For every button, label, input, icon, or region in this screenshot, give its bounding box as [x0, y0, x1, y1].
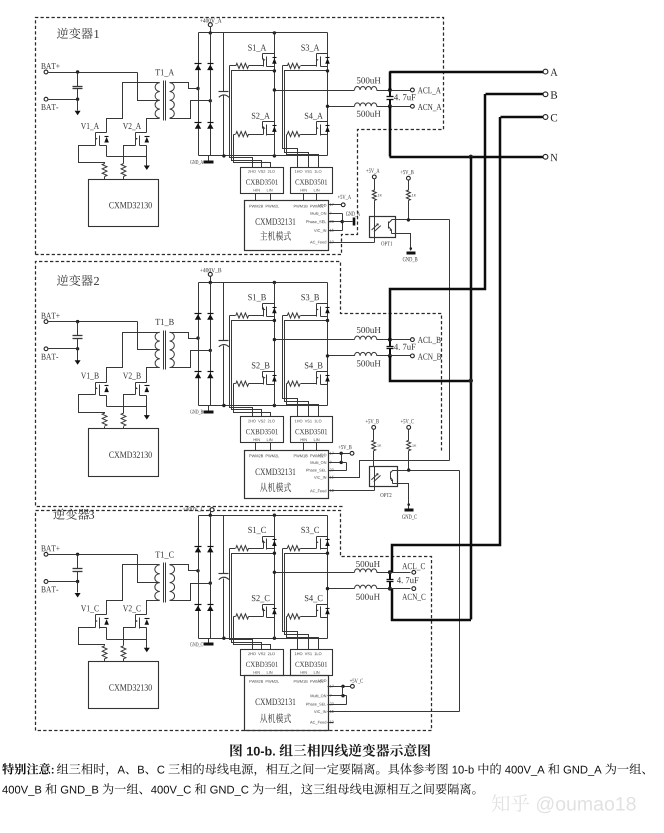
junction +400V rail / S1S2 rail	[273, 31, 276, 34]
MOSFET S1_A	[248, 45, 276, 67]
resistor S2 gate	[234, 381, 264, 386]
IC CXBD3501 driver S3/S4 (C)	[291, 650, 333, 676]
IC CXBD3501 driver S1/S2 (B)	[241, 417, 284, 443]
wire driver HIN/LIN stubs to controller	[256, 675, 317, 677]
resistor V1 gate (B)	[102, 413, 107, 428]
wire +400V stub	[210, 27, 212, 33]
wire bridge output to inductor (N side, A)	[328, 106, 355, 108]
wire secondary bottom to rectifier	[170, 101, 211, 119]
label 500uH upper (C)	[356, 561, 380, 567]
resistor 1K OPT1 pull-up	[406, 190, 416, 220]
net +5V_B pull-up for OPT1 output	[401, 170, 414, 191]
label inverter 3	[53, 508, 94, 519]
wire V1 gate to gate resistor	[79, 395, 105, 414]
transformer T1_C	[155, 552, 175, 603]
label 500uH upper (B)	[357, 327, 381, 333]
wire Multi_ON tie to VDD (inverter 2)	[329, 454, 347, 465]
wire BAT+ rail to transformer center tap	[138, 322, 160, 350]
MOSFET S2_C	[252, 595, 277, 617]
wire V1 gate to gate resistor	[79, 628, 105, 646]
junction bridge S1S2 output	[273, 338, 276, 341]
wire primary top to V1 drain	[107, 565, 160, 615]
resistor V1 gate (A)	[102, 164, 107, 180]
resistor S1 gate	[230, 546, 264, 551]
MOSFET V2_C	[123, 605, 150, 628]
wire GND bus rail (C)	[199, 638, 328, 640]
wire OPT2 collector to slave sync (inverter 3)	[398, 471, 460, 712]
junction S3 source / rail	[326, 319, 329, 322]
inductor 500uH lower (C)	[355, 585, 390, 588]
wire OPT1 collector to slave sync	[396, 220, 450, 461]
junction S1 source / rail	[273, 69, 276, 72]
diode rectifier lower-right (A)	[207, 123, 213, 129]
note paragraph line 2 text	[2, 783, 475, 796]
wire secondary bottom to rectifier	[170, 351, 211, 368]
wire BAT- to cap	[49, 581, 78, 583]
junction OPT2 collector pull-up	[407, 468, 410, 471]
net +5V_B pull-up for OPT2 LED	[366, 419, 379, 440]
diode rectifier upper-right (A)	[207, 64, 213, 71]
capacitor battery input (A)	[73, 73, 83, 100]
wire V1/V2 common source	[107, 146, 147, 167]
wire S1 source sense VS2	[232, 321, 275, 417]
wire V1 gate to gate resistor	[79, 146, 105, 164]
wire primary bottom to V2 drain	[147, 119, 160, 133]
junction S1 source / rail	[273, 319, 276, 322]
IC CXMD32130 (A) push-pull controller	[89, 180, 159, 227]
junction secondary top / left leg	[196, 336, 199, 339]
MOSFET S2_B	[252, 362, 277, 384]
IC CXMD32130 (B) push-pull controller	[89, 429, 159, 477]
net +400V_B	[200, 268, 221, 276]
wire rectifier right leg	[210, 283, 212, 406]
wire S1 driver loop 2HO	[230, 316, 253, 417]
MOSFET S1_C	[248, 527, 276, 550]
net +5V_C pull-up for OPT2 output	[401, 419, 414, 440]
diode rectifier lower-right (C)	[207, 605, 213, 612]
MOSFET V1_A	[81, 123, 109, 146]
ground arrow common source (B)	[144, 415, 150, 420]
transformer T1_B	[155, 319, 174, 370]
capacitor DC bus filter (B)	[219, 283, 230, 406]
junction ACN output node	[388, 354, 392, 358]
IC CXBD3501 driver S3/S4 (A)	[291, 168, 333, 194]
wire S2 driver loop 2LO	[234, 384, 271, 417]
pin numbers CXMD32131 (B)	[330, 452, 334, 492]
terminal ACN_C	[390, 587, 426, 601]
junction secondary bottom / right leg	[209, 349, 212, 352]
terminal A	[543, 69, 558, 76]
wire rectifier left leg	[198, 33, 200, 156]
MOSFET S4_B	[305, 362, 330, 384]
ground arrow battery minus (C)	[75, 582, 81, 598]
IC CXMD32131 (B) slave	[245, 451, 329, 499]
transformer T1_A	[155, 69, 174, 120]
resistor S1 gate	[230, 313, 264, 318]
terminal BAT+ (A)	[41, 63, 59, 74]
junction BAT+ / input cap	[76, 70, 79, 73]
junction GND rail / cap	[222, 404, 225, 407]
resistor S3 gate	[283, 313, 317, 318]
wire +400V top rail	[199, 32, 328, 34]
wire BAT+ rail to transformer center tap	[138, 555, 160, 583]
wire phase C row to terminal	[501, 116, 544, 119]
junction S1 source / rail	[273, 552, 276, 555]
junction S3 source / rail	[326, 552, 329, 555]
wire V1/V2 common source	[107, 628, 147, 650]
MOSFET S4_A	[305, 113, 330, 136]
note paragraph line 1 (bold lead-in)	[2, 763, 53, 775]
wire S4 driver loop 1LO	[287, 617, 319, 650]
wire Multi_ON/Phase_SEL/VIC_IN tie to ground (master)	[329, 214, 343, 231]
wire secondary bottom to rectifier	[170, 584, 211, 601]
note paragraph line 1 text	[57, 763, 645, 776]
wire AC_Feed to OPT2 LED cathode	[329, 487, 375, 491]
label 500uH lower (B)	[357, 360, 381, 366]
terminal BAT- (B)	[41, 347, 58, 360]
junction bridge S3S4 output	[326, 587, 329, 590]
wire BAT- to cap	[49, 99, 78, 101]
wire ACN_B to N trunk	[390, 356, 471, 381]
junction bridge S3S4 output	[326, 105, 329, 108]
MOSFET S2_A	[252, 113, 277, 136]
resistor S3 gate	[283, 63, 317, 68]
terminal N	[543, 154, 557, 161]
junction OPT1 collector pull-up	[407, 218, 410, 221]
pin labels CXMD32131 right side (B)	[306, 461, 326, 493]
wire primary top to V1 drain	[107, 333, 160, 383]
IC CXMD32131 (C) slave	[245, 676, 329, 731]
junction N row / N trunk	[469, 155, 473, 159]
resistor 1K OPT2 LED	[372, 440, 382, 466]
wire primary bottom to V2 drain	[147, 601, 160, 615]
junction secondary bottom / right leg	[209, 99, 212, 102]
junction bridge S3S4 output	[326, 354, 329, 357]
resistor S1 gate	[230, 63, 264, 68]
IC CXBD3501 driver S1/S2 (A)	[241, 168, 284, 194]
junction ACN output node	[388, 104, 392, 108]
capacitor DC bus filter (C)	[219, 516, 230, 639]
inductor 500uH upper (C)	[355, 569, 390, 573]
diode rectifier lower-left (A)	[195, 123, 202, 129]
net +5V_B at VDD pin (inverter 2)	[329, 445, 354, 455]
wire sync from OPT1 into VIC_IN (inverter 2)	[329, 461, 450, 478]
wire S3 driver loop 1HO	[283, 549, 298, 650]
MOSFET S3_A	[301, 45, 329, 67]
IC CXBD3501 driver S3/S4 (B)	[291, 417, 333, 443]
wire bridge rail S1/S2	[274, 33, 276, 156]
resistor V2 gate (A)	[121, 164, 126, 180]
junction GND rail / S1S2 rail	[273, 404, 276, 407]
inductor 500uH lower (A)	[355, 103, 390, 107]
wire phase A bus to terminal	[390, 72, 544, 91]
label 500uH lower (A)	[357, 111, 381, 117]
ground arrow common source (C)	[144, 648, 150, 653]
junction +400V rail / right leg	[209, 281, 212, 284]
capacitor 4.7uF output filter (B)	[387, 340, 394, 356]
terminal ACN_B	[390, 354, 442, 361]
wire GND bus rail (A)	[199, 155, 328, 157]
inductor 500uH upper (B)	[355, 336, 390, 339]
MOSFET S1_B	[248, 294, 276, 316]
IC CXMD32131 (A) master	[245, 201, 329, 251]
diode rectifier upper-left (C)	[195, 547, 202, 553]
wire AC_Feed to OPT1 LED cathode	[329, 238, 375, 243]
diode rectifier upper-left (A)	[195, 64, 202, 71]
wire BAT+ rail	[49, 72, 138, 74]
diode rectifier lower-right (B)	[207, 372, 213, 379]
IC CXMD32130 (C) push-pull controller	[89, 662, 159, 709]
MOSFET S4_C	[305, 595, 330, 617]
wire OPT1 emitter to GND_B	[396, 234, 413, 251]
wire +400V top rail	[199, 282, 328, 284]
resistor S2 gate	[234, 614, 264, 619]
junction ACL output node	[388, 338, 392, 342]
label 4.7uF	[397, 577, 419, 583]
wire V2 gate to gate resistor	[124, 395, 136, 414]
resistor S3 gate	[283, 546, 317, 551]
wire phase B row to terminal	[486, 93, 544, 96]
label 4.7uF	[394, 344, 416, 350]
junction BAT- / cap	[76, 580, 79, 583]
terminal B	[543, 91, 557, 98]
inductor 500uH lower (B)	[355, 352, 390, 355]
wire bridge rail S3/S4	[327, 516, 329, 639]
terminal ACN_A	[390, 104, 442, 111]
resistor V2 gate (B)	[121, 413, 126, 428]
junction ACN_B / N trunk	[469, 379, 473, 383]
wire rectifier right leg	[210, 516, 212, 639]
ground GND_C symbol	[402, 510, 417, 520]
junction +400V rail / right leg	[209, 31, 212, 34]
wire bridge rail S1/S2	[274, 283, 276, 406]
junction +400V rail / S1S2 rail	[273, 514, 276, 517]
net +5V_A pull-up for OPT1 LED	[366, 169, 379, 191]
wire rectifier right leg	[210, 33, 212, 156]
wire +400V stub	[210, 510, 212, 516]
junction GND rail / cap	[222, 637, 225, 640]
net +400V_A	[200, 18, 222, 26]
wire phase B bus riser	[390, 94, 485, 340]
wire phase C bus riser	[392, 117, 500, 572]
optocoupler OPT1	[370, 217, 396, 246]
junction GND rail / S1S2 rail	[273, 637, 276, 640]
wire BAT+ rail to transformer center tap	[138, 73, 160, 101]
wire V1/V2 common source	[107, 396, 147, 417]
ground GND_A symbol	[190, 156, 213, 165]
wire Phase_SEL tie (inverter 2)	[329, 463, 347, 471]
net +400V_C	[183, 507, 214, 512]
capacitor 4.7uF output filter (A)	[387, 91, 394, 107]
wire secondary top to rectifier	[170, 565, 199, 571]
wire BAT- to cap	[49, 348, 78, 350]
wire S3 driver loop 1HO	[283, 316, 298, 417]
wire S3 driver loop 1HO	[283, 66, 298, 168]
MOSFET V1_B	[81, 373, 109, 396]
wire primary top to V1 drain	[107, 83, 160, 133]
terminal BAT- (A)	[41, 97, 58, 110]
capacitor 4.7uF output filter (C)	[387, 573, 394, 589]
junction ACL output node	[388, 570, 392, 574]
inverter 3 dashed enclosure box	[36, 511, 432, 731]
label 500uH upper (A)	[357, 77, 381, 83]
wire driver HIN/LIN stubs to controller	[256, 194, 317, 201]
wire bridge output to inductor (N side, C)	[328, 588, 355, 590]
ground arrow battery minus (B)	[75, 349, 81, 365]
label 500uH lower (C)	[356, 594, 380, 600]
IC CXBD3501 driver S1/S2 (C)	[241, 650, 284, 676]
label 4.7uF	[394, 94, 416, 100]
junction +400V rail / S1S2 rail	[273, 281, 276, 284]
diode rectifier upper-right (C)	[207, 547, 213, 553]
terminal BAT+ (C)	[41, 545, 59, 556]
terminal C	[543, 114, 557, 121]
junction +400V rail / right leg	[209, 514, 212, 517]
diode rectifier lower-left (B)	[195, 372, 202, 379]
MOSFET S3_B	[301, 294, 329, 316]
wire Phase_SEL tie (inverter 3)	[328, 696, 347, 705]
wire OPT2 emitter to GND_C	[398, 484, 411, 509]
inverter 2 dashed enclosure box	[36, 262, 442, 507]
junction bridge S1S2 output	[273, 88, 276, 91]
pin labels CXMD32131 right side (A)	[306, 212, 326, 244]
wire rectifier left leg	[198, 283, 200, 406]
wire driver HIN/LIN stubs to controller	[256, 443, 317, 451]
wire sync from OPT2 into VIC_IN (inverter 3)	[328, 711, 460, 713]
resistor 1K OPT2 pull-up	[407, 440, 417, 470]
terminal ACL_C	[390, 563, 425, 574]
terminal ACL_A	[390, 87, 441, 94]
junction secondary top / left leg	[196, 87, 199, 90]
resistor V1 gate (C)	[102, 646, 107, 662]
resistor S4 gate	[287, 132, 317, 137]
wire V2 gate to gate resistor	[124, 146, 136, 164]
ground GND_B symbol	[403, 253, 418, 262]
resistor V2 gate (C)	[121, 646, 126, 662]
watermark zhihu	[492, 794, 636, 813]
ground GND_B symbol	[190, 406, 213, 415]
wire V2 gate to gate resistor	[124, 628, 136, 646]
wire BAT+ rail	[49, 321, 138, 323]
wire S1 driver loop 2HO	[230, 549, 253, 650]
wire neutral from ACN_A down to N row	[390, 107, 544, 158]
wire bridge rail S3/S4	[327, 33, 329, 156]
pin numbers CXMD32131 (C)	[330, 685, 334, 724]
wire ACN_C to N trunk end	[392, 589, 471, 620]
label inverter 1	[57, 28, 99, 39]
wire +400V stub	[210, 277, 212, 283]
diode rectifier lower-left (C)	[195, 605, 202, 612]
junction ACL output node	[388, 88, 392, 92]
junction Phase_SEL tie	[341, 220, 344, 223]
wire secondary top to rectifier	[170, 333, 199, 339]
caption figure title	[230, 744, 430, 757]
junction BAT+ / input cap	[76, 553, 79, 556]
terminal ACL_B	[390, 337, 441, 344]
junction BAT- / cap	[76, 98, 79, 101]
diode rectifier upper-right (B)	[207, 314, 213, 320]
wire S1 source sense VS2	[232, 554, 275, 650]
ground GND_A bar at Phase_SEL	[343, 212, 361, 226]
wire S2 driver loop 2LO	[234, 135, 271, 168]
junction S3 source / rail	[326, 69, 329, 72]
wire secondary top to rectifier	[170, 83, 199, 89]
resistor S4 gate	[287, 614, 317, 619]
capacitor battery input (B)	[73, 322, 83, 349]
wire +400V top rail	[199, 515, 328, 517]
wire bridge output to inductor (L phase, B)	[275, 339, 355, 341]
ground arrow battery minus (A)	[75, 100, 81, 116]
wire S3 source sense VS1	[285, 554, 328, 650]
wire S3 source sense VS1	[285, 71, 328, 168]
wire bridge output to inductor (L phase, C)	[275, 572, 355, 574]
label inverter 2	[57, 275, 99, 286]
junction ACN output node	[388, 587, 392, 591]
terminal BAT+ (B)	[41, 313, 59, 324]
junction GND rail / cap	[222, 154, 225, 157]
wire N trunk vertical	[470, 157, 473, 620]
terminal BAT- (C)	[41, 580, 58, 593]
inverter 1 dashed enclosure box	[36, 18, 444, 255]
wire bridge rail S3/S4	[327, 283, 329, 406]
wire S1 source sense VS2	[232, 71, 275, 168]
optocoupler OPT2	[370, 467, 398, 498]
pin labels CXMD32131 right side (C)	[306, 694, 326, 724]
MOSFET V1_C	[81, 605, 109, 628]
wire rectifier left leg	[198, 516, 200, 639]
MOSFET S3_C	[301, 527, 329, 550]
junction secondary top / left leg	[196, 569, 199, 572]
inductor 500uH upper (A)	[355, 87, 390, 91]
diode rectifier upper-left (B)	[195, 314, 202, 320]
capacitor DC bus filter (A)	[219, 33, 230, 156]
wire BAT+ rail	[49, 554, 138, 556]
wire S4 driver loop 1LO	[287, 384, 319, 417]
pin numbers CXMD32131 (A)	[330, 203, 334, 243]
wire S2 driver loop 2LO	[234, 617, 271, 650]
ground arrow common source (A)	[144, 166, 150, 171]
wire bridge output to inductor (L phase, A)	[275, 90, 355, 92]
wire GND bus rail (B)	[199, 405, 328, 407]
wire S3 source sense VS1	[285, 321, 328, 417]
junction BAT- / cap	[76, 347, 79, 350]
junction BAT+ / input cap	[76, 320, 79, 323]
net +5V_A at VDD pin	[329, 195, 352, 207]
junction secondary bottom / right leg	[209, 581, 212, 584]
wire bridge output to inductor (N side, B)	[328, 355, 355, 357]
wire primary bottom to V2 drain	[147, 368, 160, 383]
junction bridge S1S2 output	[273, 571, 276, 574]
wire bridge rail S1/S2	[274, 516, 276, 639]
wire Multi_ON tie to VDD (inverter 3)	[328, 687, 347, 698]
wire AC_Feed stub (inverter 3)	[328, 722, 334, 724]
capacitor battery input (C)	[73, 555, 83, 582]
resistor S4 gate	[287, 381, 317, 386]
net +5V_C at VDD pin (inverter 3)	[328, 679, 363, 688]
resistor S2 gate	[234, 132, 264, 137]
wire S1 driver loop 2HO	[230, 66, 253, 168]
ground GND_C symbol	[190, 639, 213, 648]
MOSFET V2_A	[123, 123, 150, 146]
resistor 1K OPT1 LED	[372, 190, 382, 217]
MOSFET V2_B	[123, 373, 150, 396]
wire S4 driver loop 1LO	[287, 135, 319, 168]
junction GND rail / S1S2 rail	[273, 154, 276, 157]
